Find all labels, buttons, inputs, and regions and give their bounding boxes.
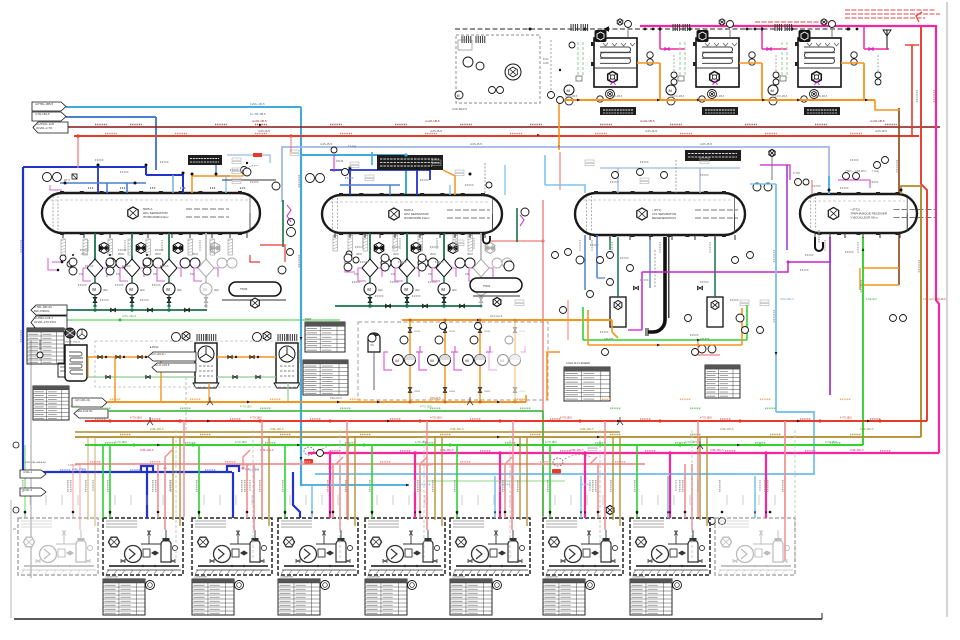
svg-text:4-FO-1B-5: 4-FO-1B-5 — [815, 94, 828, 98]
svg-text:P10: P10 — [391, 274, 396, 276]
svg-text:COLD ALK LEGEND: COLD ALK LEGEND — [566, 361, 590, 365]
svg-text:V01.B: V01.B — [414, 331, 420, 333]
svg-text:P10: P10 — [116, 274, 121, 276]
svg-text:P10: P10 — [190, 274, 195, 276]
svg-text:4-PL-B-5: 4-PL-B-5 — [470, 142, 482, 146]
svg-text:LHDL-NBL-5: LHDL-NBL-5 — [780, 298, 794, 301]
svg-text:4-HO-1B-5: 4-HO-1B-5 — [425, 119, 440, 123]
svg-text:VD18: VD18 — [356, 254, 362, 256]
svg-text:4 NC BLD 5: 4 NC BLD 5 — [452, 107, 467, 111]
svg-text:OLVRL-2TO POS: OLVRL-2TO POS — [34, 320, 56, 324]
svg-text:4-WL-ITRL-GBLB-B4: 4-WL-ITRL-GBLB-B4 — [25, 462, 46, 464]
svg-text:4-TO-1B-5: 4-TO-1B-5 — [700, 417, 712, 420]
svg-text:M: M — [92, 287, 96, 292]
svg-text:ILT V: ILT V — [64, 178, 70, 182]
svg-text:4-FO-1B-5: 4-FO-1B-5 — [775, 94, 788, 98]
svg-text:V08.B: V08.B — [414, 391, 420, 393]
svg-text:M: M — [203, 287, 207, 292]
svg-text:P16.B: P16.B — [336, 159, 343, 163]
svg-text:M: M — [367, 287, 371, 292]
svg-text:4-PL-B-5: 4-PL-B-5 — [430, 129, 442, 133]
svg-text:4E0: 4E0 — [103, 288, 108, 292]
svg-text:LVRL-1BL-5: LVRL-1BL-5 — [450, 428, 464, 431]
svg-text:V BOUILLEUR 98 m: V BOUILLEUR 98 m — [851, 216, 879, 220]
svg-text:24-F-GA-5: 24-F-GA-5 — [490, 314, 503, 318]
svg-text:4-TO-1B-5: 4-TO-1B-5 — [560, 417, 572, 420]
svg-text:4-FO-1B-5: 4-FO-1B-5 — [712, 94, 725, 98]
svg-text:P10: P10 — [354, 274, 359, 276]
svg-text:A-06: A-06 — [543, 61, 549, 65]
svg-text:M: M — [129, 287, 133, 292]
svg-text:4-LO-103-5: 4-LO-103-5 — [155, 363, 170, 367]
svg-text:4E0: 4E0 — [378, 288, 383, 292]
svg-text:VD18: VD18 — [393, 254, 399, 256]
svg-text:P10: P10 — [465, 274, 470, 276]
svg-text:P10: P10 — [153, 274, 158, 276]
svg-text:V01.B: V01.B — [449, 331, 455, 333]
svg-text:P10: P10 — [79, 274, 84, 276]
svg-text:T5034: T5034 — [483, 285, 491, 288]
svg-text:4-TO-1B-5: 4-TO-1B-5 — [430, 417, 442, 420]
svg-text:IPV001/D001/I Env: IPV001/D001/I Env — [143, 215, 169, 219]
svg-text:V08.B: V08.B — [449, 391, 455, 393]
svg-text:V01.B: V01.B — [519, 331, 526, 333]
svg-text:4-P-101-D •: 4-P-101-D • — [151, 352, 166, 356]
svg-text:M: M — [430, 358, 433, 363]
svg-text:M: M — [567, 88, 570, 93]
svg-text:BLK-PNROL: BLK-PNROL — [34, 309, 50, 313]
svg-text:4-PTRL-1B5-5: 4-PTRL-1B5-5 — [35, 102, 53, 106]
svg-text:4-B0-1B-5: 4-B0-1B-5 — [68, 464, 80, 467]
svg-text:7m: 7m — [370, 343, 375, 347]
svg-text:4-WL-3: 4-WL-3 — [23, 488, 33, 492]
svg-text:P49-GN-C: P49-GN-C — [330, 396, 342, 400]
svg-text:4-B0-1B-5: 4-B0-1B-5 — [420, 464, 432, 467]
svg-text:4E0: 4E0 — [140, 288, 145, 292]
svg-text:4-SE-4k-5: 4-SE-4k-5 — [866, 298, 877, 301]
svg-text:Y long: Y long — [872, 170, 879, 173]
svg-text:▸ P101: ▸ P101 — [150, 345, 159, 349]
svg-text:4-HO-1B-5: 4-HO-1B-5 — [252, 119, 267, 123]
svg-text:M: M — [166, 287, 170, 292]
svg-text:Compressor: Compressor — [632, 576, 645, 579]
svg-text:4-IRL-1TB-B: 4-IRL-1TB-B — [72, 469, 86, 472]
svg-text:M: M — [441, 287, 445, 292]
svg-text:4-PL-B-5: 4-PL-B-5 — [700, 142, 712, 146]
svg-text:4-TO-1B-5: 4-TO-1B-5 — [240, 406, 252, 409]
svg-text:4-FO-1B-5: 4-FO-1B-5 — [672, 94, 685, 98]
svg-text:IPV005/D05LII Env: IPV005/D05LII Env — [404, 216, 430, 220]
svg-text:4E0: 4E0 — [415, 288, 420, 292]
svg-text:4-B0-1B-5: 4-B0-1B-5 — [240, 464, 252, 467]
svg-text:P-T02: P-T02 — [793, 172, 800, 175]
svg-text:M: M — [669, 88, 672, 93]
svg-text:LVRL-1BL-5: LVRL-1BL-5 — [570, 449, 584, 452]
svg-text:4-TR-1B1-5: 4-TR-1B1-5 — [35, 112, 50, 116]
svg-text:4-TO-1B-5: 4-TO-1B-5 — [68, 406, 80, 409]
svg-text:4-FO-1B-5: 4-FO-1B-5 — [610, 94, 623, 98]
svg-text:V08.B: V08.B — [484, 391, 490, 393]
svg-text:VD18: VD18 — [430, 254, 436, 256]
svg-text:LVRL-1BL-5: LVRL-1BL-5 — [860, 428, 874, 431]
svg-text:4-TO-1B-5: 4-TO-1B-5 — [235, 441, 247, 444]
svg-text:Compressor: Compressor — [452, 576, 465, 579]
svg-text:LHD-3A-5: LHD-3A-5 — [935, 298, 946, 301]
svg-text:M: M — [465, 358, 468, 363]
svg-text:4-TO-1B-5: 4-TO-1B-5 — [115, 441, 127, 444]
svg-text:Compressor: Compressor — [280, 576, 293, 579]
svg-text:LVRL-1BL-5: LVRL-1BL-5 — [150, 428, 164, 431]
svg-text:REGENERATION: REGENERATION — [652, 216, 676, 220]
svg-text:M: M — [771, 88, 774, 93]
svg-text:Compressor: Compressor — [545, 576, 558, 579]
svg-text:4-SE-4k-5: 4-SE-4k-5 — [923, 298, 934, 301]
svg-text:4A0-1O2-5C: 4A0-1O2-5C — [77, 409, 93, 413]
svg-text:LVTIL-1B1-5: LVTIL-1B1-5 — [122, 315, 137, 318]
svg-text:P10T: P10T — [305, 317, 312, 321]
svg-text:M: M — [457, 94, 460, 98]
svg-text:4-TO-1B-5: 4-TO-1B-5 — [840, 417, 852, 420]
svg-text:4E0: 4E0 — [177, 288, 182, 292]
svg-text:VTED ← CTR-1D-C: VTED ← CTR-1D-C — [845, 170, 867, 173]
svg-text:LVRL-1BL-5: LVRL-1BL-5 — [850, 449, 864, 452]
svg-text:LVRL-1B-5: LVRL-1B-5 — [250, 102, 265, 106]
svg-text:MDD21 MDD21: MDD21 MDD21 — [65, 342, 81, 344]
svg-text:4-TO-1B-5: 4-TO-1B-5 — [130, 417, 142, 420]
svg-text:V08.B: V08.B — [519, 391, 526, 393]
svg-text:VD18: VD18 — [192, 254, 198, 256]
svg-text:4-FO-1B-5: 4-FO-1B-5 — [565, 94, 578, 98]
svg-text:4-P-1O1-OL: 4-P-1O1-OL — [75, 398, 91, 402]
svg-text:P-04: P-04 — [543, 57, 549, 61]
svg-text:OLVRL-2-TO: OLVRL-2-TO — [36, 126, 53, 130]
svg-text:LVRL-1BL-5: LVRL-1BL-5 — [580, 428, 594, 431]
svg-text:4-PL-B-5: 4-PL-B-5 — [320, 142, 332, 146]
svg-text:4-PL-B-5: 4-PL-B-5 — [258, 129, 270, 133]
svg-text:VD18: VD18 — [467, 254, 473, 256]
svg-text:4-HO-1B-5: 4-HO-1B-5 — [640, 119, 655, 123]
svg-text:4-PL-B-5: 4-PL-B-5 — [875, 129, 887, 133]
svg-text:LVRL-1BL-5: LVRL-1BL-5 — [140, 449, 154, 452]
svg-text:T Long: T Long — [348, 144, 357, 148]
svg-text:V01.B: V01.B — [484, 331, 490, 333]
svg-text:4-TO-1B-5: 4-TO-1B-5 — [545, 441, 557, 444]
svg-text:M: M — [500, 358, 503, 363]
svg-text:Compressor: Compressor — [367, 576, 380, 579]
svg-text:4-HO-1B-5: 4-HO-1B-5 — [870, 119, 885, 123]
svg-text:P10: P10 — [428, 274, 433, 276]
svg-text:VD18: VD18 — [118, 254, 124, 256]
svg-text:VD18: VD18 — [155, 254, 161, 256]
svg-text:4-WL-2: 4-WL-2 — [23, 470, 33, 474]
svg-text:Compressor: Compressor — [105, 576, 118, 579]
svg-text:M: M — [395, 358, 398, 363]
svg-text:LVRL-1BL-5: LVRL-1BL-5 — [710, 449, 724, 452]
svg-text:LL-TR-1B-5: LL-TR-1B-5 — [250, 112, 266, 116]
svg-text:Compressor: Compressor — [194, 576, 207, 579]
svg-text:T5036: T5036 — [240, 287, 248, 291]
svg-text:LVRL-1BL-5: LVRL-1BL-5 — [270, 428, 284, 431]
svg-text:LVRL-1BL-5: LVRL-1BL-5 — [720, 428, 734, 431]
svg-text:4-PL-B-5: 4-PL-B-5 — [645, 129, 657, 133]
svg-text:4E0: 4E0 — [452, 288, 457, 292]
svg-text:M: M — [404, 287, 408, 292]
svg-text:4E0: 4E0 — [214, 288, 219, 292]
svg-text:4-TO-1B-5: 4-TO-1B-5 — [685, 441, 697, 444]
svg-text:4-TO-1B-5: 4-TO-1B-5 — [250, 417, 262, 420]
